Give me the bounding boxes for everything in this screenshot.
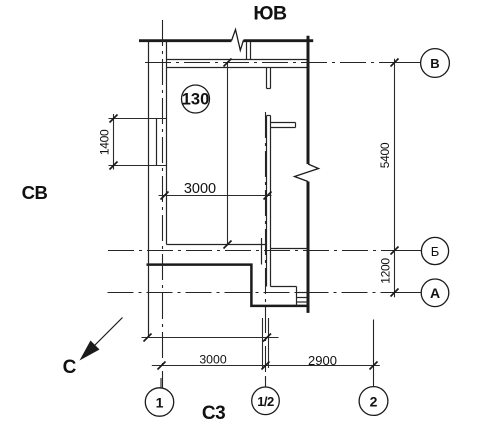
ladder rung 1 xyxy=(297,292,309,294)
vertical reference line with ticks in room xyxy=(227,63,229,245)
bottom dim tick axis2 xyxy=(370,362,378,370)
dim 3000 room tick left xyxy=(161,192,169,200)
break symbol in top wall xyxy=(232,30,244,51)
axis A solid connector to circle xyxy=(398,292,421,294)
wall line: left wall inner face xyxy=(166,42,168,245)
stub below partition right line xyxy=(270,68,272,89)
svg-text:С3: С3 xyxy=(202,403,225,424)
bottom dim tick axis1 xyxy=(158,362,166,370)
stub bottom cap xyxy=(267,88,271,90)
extension line below balcony left xyxy=(262,318,264,368)
axis 1/2 vertical dash-dot xyxy=(265,112,267,387)
bottom dim tick axis1/2 xyxy=(262,362,270,370)
svg-text:3000: 3000 xyxy=(184,181,216,197)
axis circle V xyxy=(421,49,450,78)
axis V solid connector to circle xyxy=(390,62,421,64)
svg-text:130: 130 xyxy=(182,91,210,109)
partition line: top interior wall lower face xyxy=(167,67,308,69)
chain dim line upper (no text) xyxy=(142,337,279,339)
partition line: top interior wall upper face xyxy=(167,59,308,61)
svg-text:Б: Б xyxy=(431,244,440,259)
partition arm end cap xyxy=(295,123,297,128)
axis V horizontal dash-dot xyxy=(145,62,421,64)
wall line: left wall outer face xyxy=(148,42,150,338)
stub wall right line at top xyxy=(250,42,252,60)
dim 1400 line xyxy=(113,114,115,170)
dim 3000 room line xyxy=(159,195,272,197)
axis B solid connector to circle xyxy=(398,250,421,252)
wall: balcony outline thick xyxy=(147,265,309,306)
dim 1400 extension bottom xyxy=(109,165,167,167)
break symbol in right wall xyxy=(295,164,319,182)
stub below partition left line xyxy=(266,68,268,89)
dim tick at axis B xyxy=(391,247,399,255)
dim 1400 tick bottom xyxy=(110,162,118,170)
interior partition top cap xyxy=(267,115,271,117)
room number bubble 130 xyxy=(182,85,210,113)
chain dim tick left xyxy=(144,334,152,342)
leader line above circle 1/2 xyxy=(265,376,267,387)
svg-text:1400: 1400 xyxy=(97,129,111,155)
lower wall line to ladder xyxy=(271,286,297,288)
axis circle 1 xyxy=(145,388,173,416)
interior partition right face xyxy=(270,116,272,287)
dim 5400-1200 line xyxy=(394,59,396,297)
chain dim tick right xyxy=(263,334,271,342)
svg-text:2: 2 xyxy=(370,394,378,410)
axis A horizontal dash-dot xyxy=(108,292,422,294)
svg-text:1: 1 xyxy=(156,395,164,411)
north arrow head xyxy=(80,341,100,361)
dim 1400 tick top xyxy=(110,115,118,123)
axis 2 vertical extension line xyxy=(373,320,375,387)
partition arm bottom line xyxy=(271,127,296,129)
dim tick at axis A xyxy=(391,289,399,297)
svg-text:2900: 2900 xyxy=(308,353,337,368)
bottom dim line xyxy=(152,365,380,367)
axis circle B xyxy=(421,237,448,264)
stub wall left line at top xyxy=(246,42,248,60)
tick at top of reference line xyxy=(224,59,232,67)
interior partition left face xyxy=(266,116,268,287)
right room south wall line xyxy=(271,248,309,250)
axis B horizontal dash-dot xyxy=(108,250,421,252)
window middle line in left wall xyxy=(156,119,158,166)
svg-text:ЮВ: ЮВ xyxy=(253,3,287,25)
dim 1400 extension top xyxy=(109,118,167,120)
wall: top exterior wall right part xyxy=(244,39,314,42)
wall: right exterior wall lower part xyxy=(307,182,310,313)
dim tick at axis V xyxy=(391,59,399,67)
room bottom interior face xyxy=(167,244,267,246)
axis circle A xyxy=(421,279,449,307)
svg-text:В: В xyxy=(430,56,439,71)
svg-text:3000: 3000 xyxy=(199,353,227,367)
tick at bottom of reference line xyxy=(224,241,232,249)
door jamb line near axis 1/2 xyxy=(261,238,263,265)
svg-text:СВ: СВ xyxy=(22,182,48,203)
svg-text:С: С xyxy=(63,357,77,378)
svg-text:А: А xyxy=(430,285,440,301)
ladder rung 2 xyxy=(297,297,309,299)
wall: right exterior wall upper part xyxy=(307,36,310,164)
svg-text:1/2: 1/2 xyxy=(257,394,274,409)
dim 3000 room tick right xyxy=(264,192,272,200)
svg-text:5400: 5400 xyxy=(378,142,392,168)
axis circle 2 xyxy=(359,387,388,416)
extension line below balcony right xyxy=(268,318,270,368)
wall: top exterior wall left part xyxy=(139,39,232,42)
axis circle 1/2 xyxy=(252,387,280,415)
ladder rung 3 xyxy=(297,301,309,303)
ladder left rail xyxy=(296,287,298,306)
leader line above circle 1 xyxy=(160,378,162,388)
north arrow line xyxy=(86,318,123,355)
partition arm top line xyxy=(271,122,296,124)
svg-text:1200: 1200 xyxy=(378,258,392,284)
axis 1 vertical dash-dot xyxy=(162,20,164,388)
